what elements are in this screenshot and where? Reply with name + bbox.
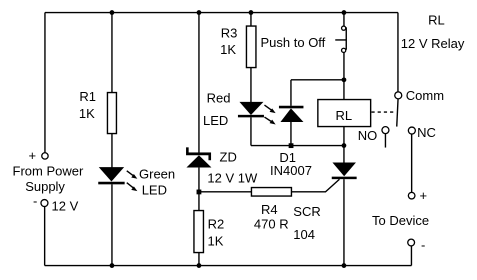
svg-text:-: - xyxy=(33,194,37,209)
svg-text:Comm: Comm xyxy=(406,88,444,103)
svg-text:Supply: Supply xyxy=(25,179,65,194)
wire R4 to gate xyxy=(291,191,326,193)
wire red LED to node wire xyxy=(250,117,252,145)
switch movable bar xyxy=(345,27,347,49)
svg-text:LED: LED xyxy=(203,113,228,128)
wire right rise to device minus xyxy=(410,246,412,266)
LED red cathode bar xyxy=(238,115,264,118)
svg-text:LED: LED xyxy=(142,183,167,198)
SCR triangle xyxy=(332,163,356,177)
terminal + power circle xyxy=(42,153,48,159)
svg-text:R3: R3 xyxy=(221,26,238,41)
wire top rail xyxy=(45,12,398,14)
wire column ZD top xyxy=(198,13,200,153)
SCR gate diagonal xyxy=(325,179,339,192)
wire coil bottom xyxy=(343,127,345,163)
svg-text:-: - xyxy=(421,238,425,253)
zener ZD triangle xyxy=(186,155,211,167)
svg-text:470 R: 470 R xyxy=(254,217,289,232)
svg-text:Red: Red xyxy=(207,91,231,106)
wire R3 to red LED xyxy=(250,68,252,103)
svg-text:SCR: SCR xyxy=(293,204,320,219)
wire switch to relay coil xyxy=(343,53,345,100)
wire left rail upper xyxy=(44,13,46,153)
wire SCR to bottom xyxy=(343,179,345,265)
wire NC to device plus xyxy=(411,134,413,192)
svg-text:R4: R4 xyxy=(261,202,278,217)
arrow red 2 xyxy=(264,117,275,124)
relay coil RL box xyxy=(318,100,371,127)
svg-text:R1: R1 xyxy=(79,89,96,104)
terminal + device circle xyxy=(408,192,415,199)
svg-text:12 V Relay: 12 V Relay xyxy=(401,36,465,51)
wire node row y145 xyxy=(251,145,344,147)
svg-text:Push to Off: Push to Off xyxy=(261,35,326,50)
contact NO circle xyxy=(382,127,389,134)
LED green triangle xyxy=(99,167,124,181)
terminal - device circle xyxy=(408,239,415,246)
wire left rail lower xyxy=(44,207,46,266)
switch contact circle top xyxy=(342,26,346,30)
wire D1 top xyxy=(290,80,292,106)
junction dots xyxy=(110,10,115,15)
diode D1 triangle xyxy=(280,108,303,122)
svg-text:RL: RL xyxy=(428,12,445,27)
zener ZD left tail xyxy=(186,147,189,152)
svg-text:To Device: To Device xyxy=(372,213,429,228)
contact NC circle xyxy=(408,127,415,134)
svg-text:12 V: 12 V xyxy=(52,199,79,214)
arrow green 1 xyxy=(127,171,138,179)
svg-text:1K: 1K xyxy=(220,42,236,57)
contact Comm circle xyxy=(395,92,402,99)
zener ZD right tail xyxy=(208,155,211,160)
wire R2 to bottom xyxy=(198,253,200,266)
zener ZD bar xyxy=(186,152,211,155)
svg-text:+: + xyxy=(420,188,428,203)
svg-text:R2: R2 xyxy=(208,217,225,232)
wire NO stub xyxy=(384,134,386,148)
svg-text:From Power: From Power xyxy=(13,163,84,178)
wire green LED to bottom xyxy=(111,184,113,265)
dashed actuator link xyxy=(371,111,396,113)
wire R1 to green LED xyxy=(111,134,113,168)
wire ZD to junction xyxy=(198,168,200,211)
svg-text:IN4007: IN4007 xyxy=(270,163,312,178)
SCR cathode bar xyxy=(332,177,357,180)
wire column R3 top xyxy=(250,13,252,26)
contact lever xyxy=(397,99,398,127)
wire bottom rail xyxy=(45,265,412,267)
arrow green 2 xyxy=(127,183,138,192)
resistor R2 xyxy=(194,211,204,253)
wire column R1 top xyxy=(111,13,113,93)
wire D1 to switch column y79 xyxy=(291,79,344,81)
terminal - power circle xyxy=(41,200,48,207)
wire right drop to Comm xyxy=(397,13,399,92)
LED green cathode bar xyxy=(98,182,124,185)
svg-text:1K: 1K xyxy=(208,233,224,248)
svg-text:12 V 1W: 12 V 1W xyxy=(207,170,258,185)
resistor R4 xyxy=(251,188,291,197)
diode D1 bar xyxy=(279,106,304,109)
wire ZD junction to R4 xyxy=(199,191,252,193)
svg-text:RL: RL xyxy=(336,108,353,123)
arrow red 1 xyxy=(264,105,275,113)
svg-text:NO: NO xyxy=(358,128,378,143)
svg-text:1K: 1K xyxy=(79,106,95,121)
svg-text:ZD: ZD xyxy=(220,150,237,165)
svg-text:104: 104 xyxy=(293,227,315,242)
svg-text:+: + xyxy=(29,148,37,163)
svg-text:NC: NC xyxy=(417,125,436,140)
wire D1 bottom xyxy=(290,122,292,146)
resistor R1 xyxy=(107,93,116,134)
switch contact circle bottom xyxy=(342,48,346,52)
switch push rod xyxy=(335,39,346,41)
wire switch column top xyxy=(343,13,345,27)
resistor R3 xyxy=(246,26,256,68)
svg-text:Green: Green xyxy=(139,167,175,182)
LED red triangle xyxy=(239,102,263,115)
